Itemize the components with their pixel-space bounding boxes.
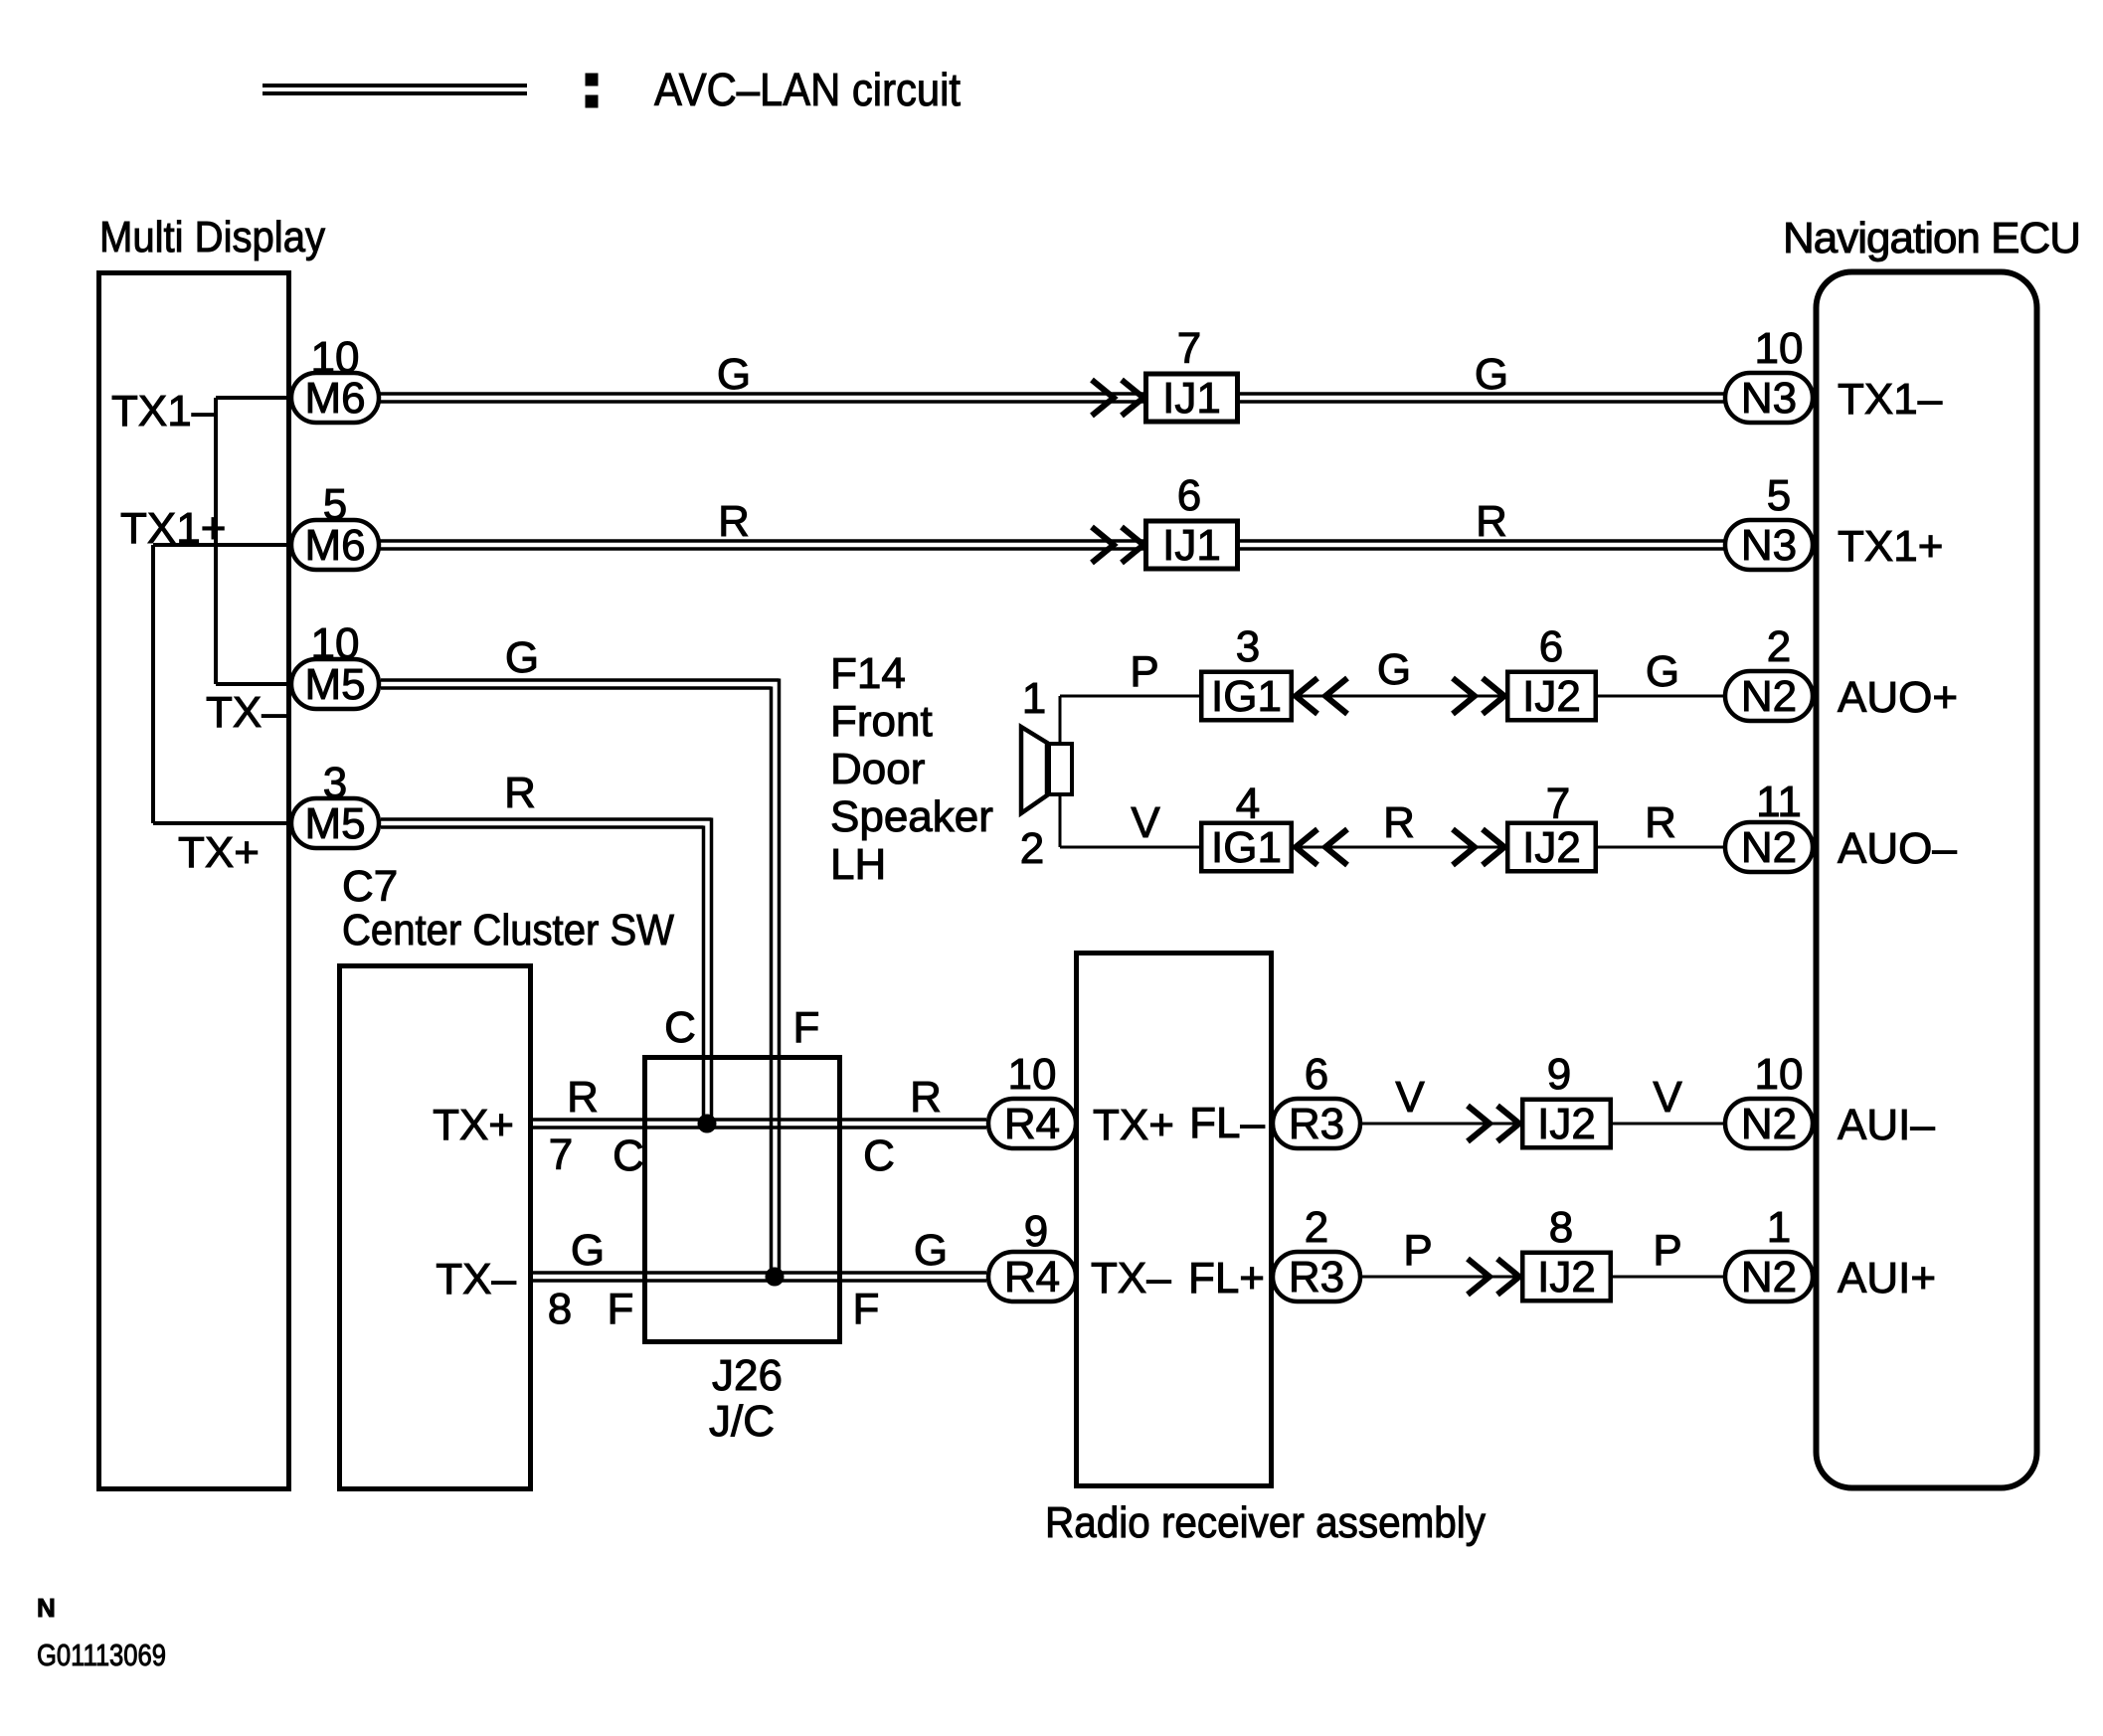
svg-text:FL–: FL–: [1189, 1099, 1265, 1147]
svg-text:10: 10: [1755, 1050, 1804, 1099]
svg-text:5: 5: [323, 480, 347, 529]
svg-text:TX–: TX–: [206, 688, 286, 737]
svg-text:TX1–: TX1–: [1838, 375, 1943, 424]
svg-text:3: 3: [1236, 622, 1260, 671]
svg-text:5: 5: [1767, 471, 1791, 520]
svg-text:R: R: [1645, 798, 1676, 847]
svg-text:7: 7: [1546, 780, 1570, 828]
svg-text:FL+: FL+: [1188, 1254, 1265, 1302]
svg-text:10: 10: [311, 619, 360, 668]
svg-text:N2: N2: [1741, 823, 1797, 872]
svg-text:Center Cluster SW: Center Cluster SW: [342, 906, 674, 955]
svg-text:9: 9: [1547, 1050, 1571, 1099]
svg-text:F: F: [793, 1003, 820, 1052]
svg-text:P: P: [1403, 1226, 1432, 1275]
svg-text:AUO–: AUO–: [1838, 824, 1957, 873]
svg-text:F: F: [608, 1285, 634, 1333]
svg-text:C: C: [613, 1131, 644, 1180]
svg-text:IJ1: IJ1: [1162, 374, 1221, 423]
svg-text:V: V: [1395, 1073, 1425, 1122]
svg-text:N2: N2: [1741, 1253, 1797, 1302]
svg-text:R: R: [1383, 798, 1415, 847]
svg-text:N3: N3: [1741, 521, 1797, 570]
svg-text:C7: C7: [342, 862, 398, 911]
svg-text:Radio receiver assembly: Radio receiver assembly: [1045, 1498, 1486, 1547]
svg-text:1: 1: [1767, 1203, 1791, 1252]
svg-text:C: C: [664, 1003, 696, 1052]
svg-text:Door: Door: [830, 745, 925, 793]
svg-text:G01113069: G01113069: [37, 1638, 166, 1672]
svg-text:N3: N3: [1741, 374, 1797, 423]
svg-text:J/C: J/C: [709, 1397, 775, 1446]
svg-text:G: G: [717, 350, 751, 399]
svg-text:N2: N2: [1741, 1100, 1797, 1148]
svg-text:TX1–: TX1–: [111, 387, 217, 435]
svg-text:IJ2: IJ2: [1537, 1253, 1596, 1302]
svg-text:7: 7: [549, 1130, 573, 1179]
svg-text:TX+: TX+: [433, 1101, 514, 1149]
svg-text:V: V: [1653, 1073, 1682, 1122]
svg-text:F: F: [853, 1285, 880, 1333]
svg-text:TX1+: TX1+: [1838, 522, 1943, 571]
svg-text:8: 8: [548, 1285, 572, 1333]
svg-text:IG1: IG1: [1211, 823, 1282, 872]
svg-text:R4: R4: [1004, 1253, 1060, 1302]
svg-text:IJ2: IJ2: [1522, 672, 1581, 721]
svg-text:6: 6: [1539, 622, 1563, 671]
svg-text:N: N: [37, 1593, 56, 1623]
svg-text:8: 8: [1549, 1203, 1573, 1252]
svg-text:TX+: TX+: [1093, 1101, 1174, 1149]
svg-text:9: 9: [1024, 1207, 1048, 1256]
svg-text:P: P: [1130, 647, 1158, 696]
svg-text:R: R: [910, 1073, 942, 1122]
svg-text:1: 1: [1022, 674, 1046, 723]
svg-text:G: G: [1377, 645, 1411, 694]
svg-text:G: G: [1475, 350, 1508, 399]
svg-text:G: G: [914, 1226, 948, 1275]
svg-text:R: R: [504, 769, 536, 817]
svg-text:R: R: [1476, 497, 1507, 546]
svg-text:6: 6: [1177, 471, 1201, 520]
svg-text:G: G: [505, 633, 539, 682]
svg-text:6: 6: [1305, 1050, 1328, 1099]
svg-text:AUI–: AUI–: [1838, 1101, 1935, 1149]
svg-text:10: 10: [311, 333, 360, 382]
svg-text:10: 10: [1755, 324, 1804, 373]
svg-text:R: R: [718, 497, 750, 546]
svg-text:TX–: TX–: [1091, 1254, 1171, 1302]
svg-text:LH: LH: [830, 840, 886, 889]
svg-text:Multi Display: Multi Display: [99, 213, 325, 261]
svg-text:IG1: IG1: [1211, 672, 1282, 721]
svg-text:TX–: TX–: [436, 1255, 516, 1303]
svg-text:Navigation ECU: Navigation ECU: [1783, 214, 2080, 262]
svg-text:Speaker: Speaker: [830, 792, 993, 841]
svg-text:N2: N2: [1741, 672, 1797, 721]
svg-text:IJ1: IJ1: [1162, 521, 1221, 570]
svg-text:R3: R3: [1289, 1100, 1344, 1148]
svg-text:R3: R3: [1289, 1253, 1344, 1302]
svg-text:IJ2: IJ2: [1537, 1100, 1596, 1148]
svg-text:11: 11: [1756, 778, 1802, 826]
svg-text:F14: F14: [830, 649, 906, 698]
svg-text:TX1+: TX1+: [120, 504, 226, 553]
svg-text:Front: Front: [830, 697, 933, 746]
svg-text:C: C: [863, 1131, 895, 1180]
svg-text:2: 2: [1020, 824, 1044, 873]
svg-text:AUO+: AUO+: [1838, 673, 1958, 722]
svg-text:2: 2: [1305, 1203, 1328, 1252]
svg-text:R: R: [567, 1073, 599, 1122]
svg-text:AVC–LAN circuit: AVC–LAN circuit: [654, 64, 961, 115]
svg-text:G: G: [1646, 647, 1679, 696]
svg-text:3: 3: [323, 759, 347, 807]
svg-text:4: 4: [1236, 780, 1260, 828]
svg-text:7: 7: [1177, 324, 1201, 373]
svg-text:J26: J26: [712, 1351, 783, 1400]
svg-text:IJ2: IJ2: [1522, 823, 1581, 872]
svg-text:AUI+: AUI+: [1838, 1254, 1936, 1302]
svg-text:R4: R4: [1004, 1100, 1060, 1148]
svg-text:TX+: TX+: [178, 828, 260, 877]
svg-text:V: V: [1131, 798, 1160, 847]
svg-text:10: 10: [1008, 1050, 1057, 1099]
svg-text:P: P: [1653, 1226, 1681, 1275]
svg-text:G: G: [571, 1226, 605, 1275]
svg-text:2: 2: [1767, 622, 1791, 671]
